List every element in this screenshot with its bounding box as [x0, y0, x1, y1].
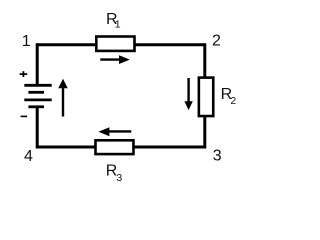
svg-text:1: 1: [115, 19, 121, 31]
svg-text:2: 2: [230, 95, 236, 107]
svg-text:4: 4: [24, 148, 33, 165]
svg-text:3: 3: [213, 148, 222, 165]
svg-text:1: 1: [22, 33, 31, 50]
svg-text:2: 2: [212, 33, 221, 50]
svg-text:3: 3: [116, 172, 122, 184]
